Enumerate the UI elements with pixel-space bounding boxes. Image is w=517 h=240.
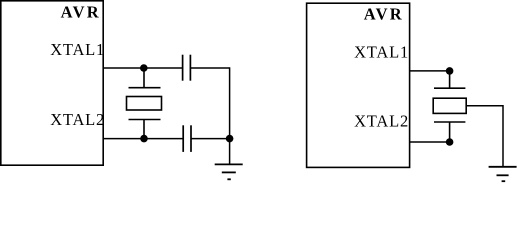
ground (left): [215, 164, 243, 179]
wire XTAL2 to C2 (left): [103, 138, 183, 140]
svg-text:XTAL1: XTAL1: [50, 40, 105, 59]
svg-text:AVR: AVR: [364, 4, 404, 23]
junction XTAL1 / crystal (left): [140, 64, 148, 72]
capacitor C2: [183, 125, 191, 152]
resonator Y2 (right): [433, 71, 466, 142]
wire XTAL2 to resonator (right): [410, 141, 450, 143]
wire C1 to ground rail (left): [190, 67, 229, 69]
wire XTAL1 to C1 (left): [103, 67, 182, 69]
svg-text:XTAL2: XTAL2: [50, 110, 105, 129]
IC AVR box (right): [307, 3, 410, 167]
wire ground rail (left): [229, 67, 231, 164]
svg-text:XTAL2: XTAL2: [354, 111, 409, 130]
crystal Y1 (left): [127, 68, 162, 139]
junction XTAL2 / crystal (left): [140, 135, 148, 143]
wire C2 to ground rail (left): [191, 138, 230, 140]
junction XTAL1 / resonator (right): [446, 67, 454, 75]
IC AVR box (left): [1, 1, 103, 165]
wire XTAL1 to resonator (right): [410, 70, 450, 72]
svg-text:XTAL1: XTAL1: [354, 42, 409, 61]
wire resonator case to ground (right): [466, 106, 503, 166]
junction XTAL2 / resonator (right): [446, 138, 454, 146]
junction C2 / rail (left): [226, 135, 234, 143]
svg-text:AVR: AVR: [61, 2, 101, 21]
capacitor C1: [183, 55, 191, 81]
ground (right): [489, 167, 517, 181]
